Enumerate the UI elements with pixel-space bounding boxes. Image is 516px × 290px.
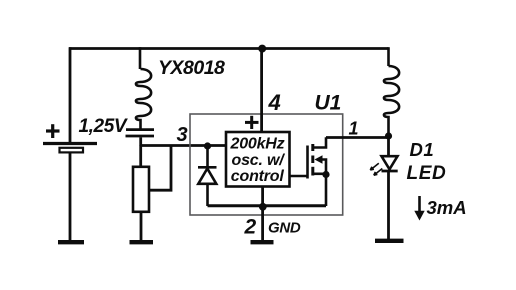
wire battery positive vertical bbox=[69, 47, 72, 142]
junction dot source bbox=[322, 171, 329, 178]
junction dot ground rail bbox=[259, 203, 267, 211]
battery BT1 1,25V bbox=[43, 144, 97, 153]
svg-text:1,25V: 1,25V bbox=[79, 116, 128, 137]
ground battery bbox=[58, 240, 84, 244]
svg-text:LED: LED bbox=[407, 163, 447, 184]
current arrow 3mA bbox=[418, 196, 421, 213]
channel segment drain bbox=[311, 144, 314, 151]
gate connection wire bbox=[290, 175, 308, 178]
source wire bbox=[314, 173, 327, 176]
svg-text:YX8018: YX8018 bbox=[158, 57, 225, 79]
svg-text:D1: D1 bbox=[410, 139, 435, 160]
plus sign pin 4 bbox=[245, 116, 259, 129]
svg-text:4: 4 bbox=[268, 90, 281, 115]
inductor L1 bbox=[136, 47, 151, 128]
drain wire bbox=[314, 137, 327, 147]
LED D1 bbox=[382, 156, 398, 171]
battery plus sign bbox=[46, 124, 60, 138]
svg-text:osc. w/: osc. w/ bbox=[232, 152, 286, 169]
inductor L2 bbox=[384, 47, 399, 136]
ground LED bbox=[375, 239, 404, 243]
ground resistor bbox=[130, 240, 154, 244]
svg-text:3: 3 bbox=[177, 124, 188, 146]
svg-text:2: 2 bbox=[244, 216, 257, 239]
wire resistor side tap bbox=[150, 146, 172, 191]
junction dot pin 1 bbox=[385, 132, 392, 139]
wire resistor bottom bbox=[140, 212, 143, 241]
wire capacitor to node 3 bbox=[139, 137, 142, 146]
IC outer box U1 bbox=[190, 114, 343, 215]
svg-text:3mA: 3mA bbox=[427, 197, 467, 218]
channel segment body bbox=[311, 156, 314, 164]
inner oscillator box bbox=[226, 132, 290, 187]
svg-text:control: control bbox=[231, 168, 285, 185]
channel segment source bbox=[311, 167, 314, 176]
wire to LED bbox=[387, 136, 390, 156]
wire battery negative vertical bbox=[69, 152, 72, 241]
wire LED to ground bbox=[387, 172, 390, 240]
transistor Q1 MOSFET bbox=[290, 137, 327, 206]
source down to rail bbox=[325, 174, 328, 206]
svg-text:U1: U1 bbox=[315, 92, 342, 115]
capacitor C1 bbox=[126, 130, 155, 136]
wire pin 4 vertical bbox=[260, 49, 263, 133]
ground pin 2 bbox=[251, 240, 274, 244]
LED light arrows bbox=[370, 163, 382, 175]
svg-text:1: 1 bbox=[349, 119, 359, 139]
junction dot pin 4 top rail bbox=[258, 45, 266, 53]
wire pin 1 bbox=[326, 136, 389, 139]
junction dot node 3 bbox=[204, 142, 211, 149]
label 200kHz osc. w/ control bbox=[230, 136, 286, 186]
internal ground rail bbox=[208, 204, 327, 207]
wire node to resistor top bbox=[139, 146, 142, 168]
wire pin 2 vertical bbox=[261, 206, 264, 241]
svg-text:200kHz: 200kHz bbox=[230, 136, 285, 153]
diode D2 internal bbox=[198, 146, 217, 206]
svg-text:GND: GND bbox=[268, 220, 301, 237]
arrow body (points left) bbox=[315, 155, 323, 163]
resistor R1 bbox=[133, 167, 149, 212]
body arrow line bbox=[321, 160, 326, 176]
gate bar bbox=[306, 146, 309, 179]
wire pin 2 inner box to rail bbox=[261, 187, 264, 207]
wire node 3 horizontal bbox=[140, 144, 227, 147]
wire top rail bbox=[69, 47, 389, 50]
